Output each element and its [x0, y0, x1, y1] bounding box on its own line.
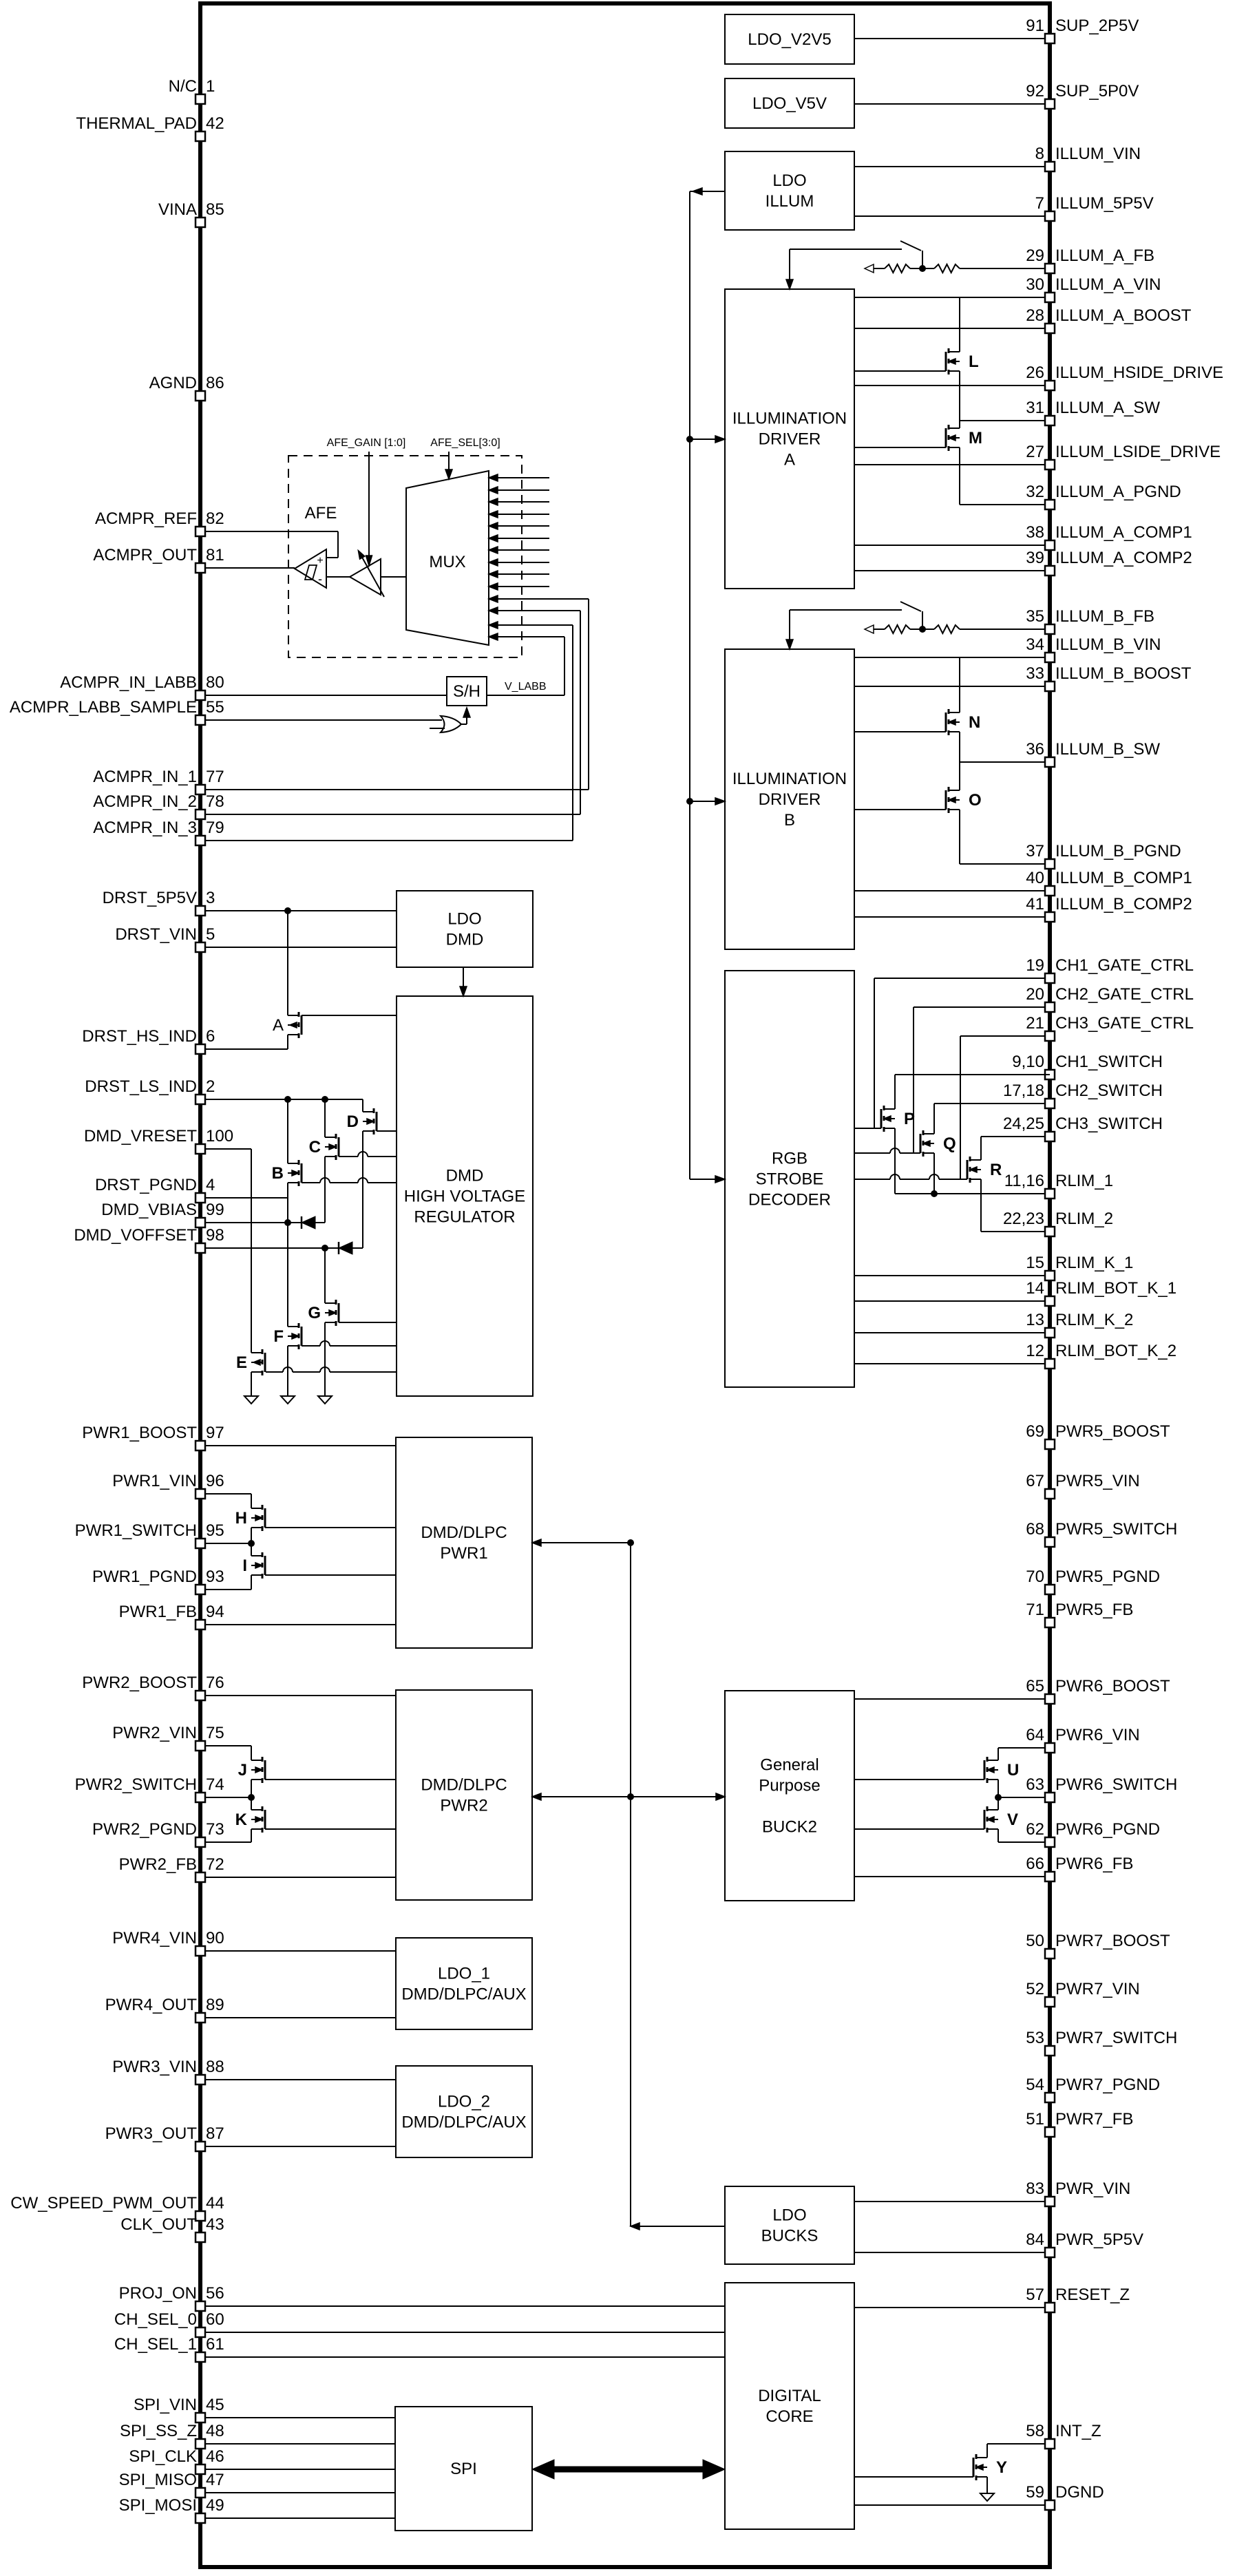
- wire I source to PWR1_PGND: [251, 1575, 252, 1590]
- wire B drain rail: [287, 1099, 288, 1163]
- svg-text:DMD_VOFFSET: DMD_VOFFSET: [74, 1226, 197, 1245]
- wire VBIAS diode anode: [315, 1222, 325, 1223]
- transistor G: [335, 1300, 337, 1305]
- svg-text:PWR6_SWITCH: PWR6_SWITCH: [1055, 1775, 1177, 1794]
- transistor F: [298, 1323, 300, 1328]
- node RLIM_BOT_K_1 (pin 14): [854, 1300, 1050, 1302]
- svg-text:90: 90: [206, 1929, 224, 1947]
- svg-text:ACMPR_IN_1: ACMPR_IN_1: [93, 768, 197, 786]
- svg-text:100: 100: [206, 1127, 233, 1146]
- svg-text:ACMPR_REF: ACMPR_REF: [95, 509, 197, 528]
- transistor D: [373, 1108, 375, 1113]
- junction DMD_VOFFSET: [321, 1245, 328, 1252]
- node PWR2_BOOST (pin 76): [200, 1695, 396, 1696]
- svg-text:PWR7_VIN: PWR7_VIN: [1055, 1980, 1140, 1998]
- wire MUX input 3: [489, 501, 549, 503]
- svg-text:ILLUM_B_SW: ILLUM_B_SW: [1055, 740, 1160, 759]
- svg-text:DMD: DMD: [446, 931, 484, 949]
- svg-text:PWR5_SWITCH: PWR5_SWITCH: [1055, 1520, 1177, 1539]
- svg-text:DRIVER: DRIVER: [759, 790, 821, 809]
- svg-text:49: 49: [206, 2496, 224, 2515]
- node CLK_OUT (pin 43): [196, 2232, 205, 2242]
- block LDO_V2V5: [725, 14, 854, 64]
- wire LDO ILLUM output bus: [689, 191, 690, 1179]
- svg-text:9,10: 9,10: [1012, 1053, 1044, 1071]
- node PWR3_VIN (pin 88): [200, 2079, 396, 2080]
- node PWR2_PGND (pin 73): [200, 1841, 251, 1843]
- switch ILLUM_B_FB: [922, 611, 923, 629]
- node SPI_SS_Z (pin 48): [200, 2443, 395, 2445]
- wire MUX input 8: [489, 562, 549, 563]
- svg-text:ILLUM_A_PGND: ILLUM_A_PGND: [1055, 483, 1181, 501]
- svg-text:Y: Y: [996, 2458, 1007, 2477]
- junction bus top: [627, 1539, 634, 1546]
- node ACMPR_IN_3 (pin 79): [200, 840, 573, 841]
- svg-text:15: 15: [1026, 1254, 1044, 1272]
- svg-text:55: 55: [206, 698, 224, 717]
- node CH3_GATE_CTRL (pin 21): [960, 1035, 1050, 1037]
- svg-text:PWR_VIN: PWR_VIN: [1055, 2179, 1130, 2198]
- node ILLUM_A_VIN (pin 30): [854, 297, 1050, 298]
- svg-text:ILLUMINATION: ILLUMINATION: [732, 770, 847, 788]
- svg-text:42: 42: [206, 114, 224, 133]
- svg-text:69: 69: [1026, 1422, 1044, 1441]
- svg-text:30: 30: [1026, 275, 1044, 294]
- diode: [301, 1216, 303, 1229]
- svg-text:PWR6_BOOST: PWR6_BOOST: [1055, 1677, 1170, 1696]
- svg-text:CH2_SWITCH: CH2_SWITCH: [1055, 1081, 1163, 1100]
- node PWR5_VIN (pin 67): [1045, 1489, 1055, 1499]
- svg-text:86: 86: [206, 374, 224, 392]
- svg-text:21: 21: [1026, 1014, 1044, 1033]
- svg-text:2: 2: [206, 1077, 215, 1096]
- wire bus to DMD/DLPC PWR1: [532, 1542, 631, 1543]
- outer chip boundary: [200, 3, 1050, 2567]
- svg-text:43: 43: [206, 2215, 224, 2234]
- node DMD_VBIAS (pin 99): [200, 1222, 302, 1223]
- wire comparator minus input: [326, 576, 350, 578]
- bus SPI to DIGITAL CORE (bidirectional): [544, 2467, 713, 2473]
- svg-text:ILLUM_HSIDE_DRIVE: ILLUM_HSIDE_DRIVE: [1055, 363, 1223, 382]
- transistor R: [969, 1157, 971, 1161]
- transistor J: [262, 1757, 264, 1762]
- ground: [318, 1396, 332, 1404]
- svg-text:91: 91: [1026, 17, 1044, 35]
- node ILLUM_LSIDE_DRIVE (pin 27): [854, 464, 1050, 465]
- switch ILLUM_A_FB: [922, 251, 923, 268]
- ground: [244, 1396, 258, 1404]
- node ILLUM_B_PGND (pin 37): [960, 863, 1050, 865]
- node SPI_CLK (pin 46): [200, 2469, 395, 2470]
- svg-text:17,18: 17,18: [1003, 1081, 1044, 1100]
- wire E source to ground: [251, 1372, 252, 1396]
- svg-text:89: 89: [206, 1996, 224, 2014]
- junction illum bus A: [686, 436, 693, 443]
- wire J source to PWR2_SWITCH to K drain: [251, 1780, 252, 1810]
- svg-text:ILLUM_A_BOOST: ILLUM_A_BOOST: [1055, 306, 1192, 325]
- svg-text:41: 41: [1026, 895, 1044, 914]
- svg-text:CORE: CORE: [766, 2407, 813, 2426]
- svg-text:ILLUM_A_COMP1: ILLUM_A_COMP1: [1055, 523, 1192, 542]
- wire N source to ILLUM_B_SW to O drain: [959, 732, 960, 790]
- resistor network ILLUM_A_FB: [865, 264, 874, 273]
- svg-text:PWR1_FB: PWR1_FB: [119, 1603, 197, 1621]
- wire H source to PWR1_SWITCH to I drain: [251, 1528, 252, 1556]
- svg-text:ILLUM_B_BOOST: ILLUM_B_BOOST: [1055, 664, 1192, 683]
- svg-text:ILLUM_A_SW: ILLUM_A_SW: [1055, 399, 1160, 417]
- wire MUX input 12 from ACMPR_IN_2: [489, 610, 580, 611]
- transistor B: [298, 1160, 300, 1165]
- node PWR1_PGND (pin 93): [200, 1589, 251, 1590]
- junction DMD_VBIAS: [284, 1219, 291, 1226]
- block LDO_V5V: [725, 78, 854, 128]
- svg-text:61: 61: [206, 2335, 224, 2354]
- svg-text:48: 48: [206, 2422, 224, 2440]
- node ILLUM_A_SW (pin 31): [960, 420, 1050, 421]
- node ILLUM_B_BOOST (pin 33): [854, 686, 1050, 687]
- transistor M: [948, 425, 950, 430]
- svg-text:SUP_2P5V: SUP_2P5V: [1055, 17, 1139, 35]
- svg-text:PWR2_FB: PWR2_FB: [119, 1855, 197, 1874]
- node PWR6_SWITCH (pin 63): [998, 1797, 1050, 1798]
- svg-text:SPI_SS_Z: SPI_SS_Z: [120, 2422, 197, 2440]
- svg-text:LDO_V5V: LDO_V5V: [752, 94, 827, 113]
- node ILLUM_B_FB (pin 35): [960, 629, 1050, 630]
- node PWR6_VIN (pin 64): [998, 1747, 1050, 1749]
- svg-text:PWR6_FB: PWR6_FB: [1055, 1855, 1133, 1873]
- svg-text:6: 6: [206, 1027, 215, 1046]
- ground: [281, 1396, 295, 1404]
- node PWR1_SWITCH (pin 95): [200, 1543, 251, 1544]
- svg-text:81: 81: [206, 546, 224, 564]
- svg-text:PWR7_SWITCH: PWR7_SWITCH: [1055, 2029, 1177, 2047]
- node DMD_VOFFSET (pin 98): [200, 1247, 339, 1249]
- node PWR5_SWITCH (pin 68): [1045, 1537, 1055, 1547]
- wire CH2_SWITCH to Q drain: [933, 1104, 935, 1134]
- svg-text:PWR1: PWR1: [440, 1544, 487, 1563]
- wire CH1_GATE_CTRL riser: [874, 978, 875, 1128]
- svg-text:92: 92: [1026, 82, 1044, 101]
- block General Purpose BUCK2: [725, 1691, 854, 1901]
- svg-text:11,16: 11,16: [1004, 1172, 1044, 1190]
- svg-text:72: 72: [206, 1855, 224, 1874]
- junction bus middle: [627, 1793, 634, 1800]
- svg-text:20: 20: [1026, 985, 1044, 1004]
- svg-text:66: 66: [1026, 1855, 1044, 1873]
- wire PWR2_VIN rail: [251, 1746, 252, 1760]
- wire K source to PWR2_PGND: [251, 1829, 252, 1842]
- svg-text:U: U: [1007, 1761, 1019, 1780]
- node ILLUM_A_PGND (pin 32): [960, 504, 1050, 505]
- transistor A: [298, 1012, 300, 1017]
- node PWR3_OUT (pin 87): [200, 2146, 396, 2147]
- node INT_Z (pin 58): [987, 2443, 1050, 2445]
- svg-text:LDO: LDO: [772, 2206, 806, 2225]
- node ACMPR_IN_2 (pin 78): [200, 814, 580, 815]
- wire MUX input 10: [489, 586, 549, 587]
- node PWR7_VIN (pin 52): [1045, 1997, 1055, 2007]
- svg-text:-: -: [318, 572, 322, 586]
- svg-text:PWR6_VIN: PWR6_VIN: [1055, 1726, 1140, 1744]
- svg-text:CH_SEL_1: CH_SEL_1: [114, 2335, 197, 2354]
- node RESET_Z (pin 57): [854, 2307, 1050, 2308]
- svg-text:Q: Q: [943, 1134, 956, 1153]
- svg-text:44: 44: [206, 2194, 224, 2213]
- svg-text:ILLUM_5P5V: ILLUM_5P5V: [1055, 194, 1154, 213]
- svg-text:82: 82: [206, 509, 224, 528]
- svg-text:ILLUM: ILLUM: [766, 192, 814, 211]
- node DMD_VRESET (pin 100): [200, 1148, 251, 1150]
- junction illum bus B: [686, 798, 693, 805]
- wire AFE_SEL control arrow: [448, 452, 450, 469]
- svg-text:INT_Z: INT_Z: [1055, 2422, 1101, 2440]
- svg-text:REGULATOR: REGULATOR: [414, 1208, 515, 1227]
- svg-text:PWR5_FB: PWR5_FB: [1055, 1601, 1133, 1619]
- svg-text:31: 31: [1026, 399, 1044, 417]
- node PWR1_BOOST (pin 97): [200, 1445, 396, 1446]
- wire R source to RLIM_2: [980, 1179, 982, 1232]
- svg-text:DGND: DGND: [1055, 2483, 1104, 2502]
- svg-text:32: 32: [1026, 483, 1044, 501]
- svg-text:79: 79: [206, 819, 224, 837]
- wire MUX input 7: [489, 549, 549, 551]
- svg-text:H: H: [235, 1509, 247, 1528]
- svg-text:95: 95: [206, 1521, 224, 1540]
- svg-text:98: 98: [206, 1226, 224, 1245]
- wire bus to BUCK2: [631, 1796, 725, 1797]
- junction on DRST_5P5V wire: [284, 907, 291, 914]
- node DRST_HS_IND (pin 6): [200, 1048, 288, 1050]
- node PWR4_VIN (pin 90): [200, 1950, 396, 1952]
- svg-text:LDO_1: LDO_1: [438, 1965, 490, 1983]
- node ILLUM_HSIDE_DRIVE (pin 26): [854, 385, 1050, 386]
- node CW_SPEED_PWM_OUT (pin 44): [196, 2211, 205, 2221]
- svg-text:73: 73: [206, 1820, 224, 1839]
- svg-text:87: 87: [206, 2124, 224, 2143]
- block RGB STROBE DECODER: [725, 971, 854, 1387]
- block DIGITAL CORE: [725, 2283, 854, 2529]
- wire C source down to VBIAS diode: [324, 1157, 326, 1223]
- wire B source to DRST_PGND and VBIAS: [287, 1183, 288, 1327]
- svg-text:S/H: S/H: [453, 682, 481, 701]
- block DMD/DLPC PWR2: [396, 1690, 532, 1900]
- node SPI_MISO (pin 47): [200, 2492, 395, 2493]
- wire MUX input 13 from ACMPR_IN_3: [489, 624, 573, 626]
- svg-text:ILLUM_A_VIN: ILLUM_A_VIN: [1055, 275, 1161, 294]
- block ILLUMINATION DRIVER B: [725, 649, 854, 949]
- svg-text:DMD_VRESET: DMD_VRESET: [84, 1127, 197, 1146]
- junction PWR6_SWITCH: [995, 1794, 1002, 1801]
- svg-text:RLIM_2: RLIM_2: [1055, 1210, 1113, 1228]
- svg-text:F: F: [273, 1327, 284, 1346]
- svg-text:54: 54: [1026, 2076, 1044, 2094]
- svg-text:DECODER: DECODER: [748, 1191, 831, 1210]
- svg-text:ACMPR_IN_2: ACMPR_IN_2: [93, 792, 197, 811]
- svg-text:DMD: DMD: [446, 1167, 484, 1185]
- node DRST_LS_IND (pin 2): [200, 1099, 363, 1100]
- svg-text:General: General: [760, 1756, 819, 1775]
- node PWR5_BOOST (pin 69): [1045, 1439, 1055, 1449]
- wire MUX input 1: [489, 477, 549, 478]
- wire illum bus to DRIVER B: [690, 801, 725, 802]
- svg-text:SPI_MISO: SPI_MISO: [119, 2471, 197, 2489]
- node SUP_2P5V (pin 91): [854, 38, 1050, 39]
- svg-text:38: 38: [1026, 523, 1044, 542]
- svg-text:PWR5_PGND: PWR5_PGND: [1055, 1567, 1160, 1586]
- node DGND (pin 59): [854, 2504, 1050, 2506]
- node ILLUM_VIN (pin 8): [854, 166, 1050, 167]
- block S/H sample and hold: [447, 677, 487, 706]
- node N/C (pin 1): [196, 94, 205, 104]
- svg-text:19: 19: [1026, 956, 1044, 975]
- node ILLUM_A_COMP2 (pin 39): [854, 570, 1050, 571]
- or-gate for LABB sample: [441, 716, 461, 732]
- node AGND (pin 86): [196, 391, 205, 401]
- svg-text:64: 64: [1026, 1726, 1044, 1744]
- svg-text:BUCKS: BUCKS: [761, 2227, 819, 2246]
- svg-text:ILLUM_B_COMP2: ILLUM_B_COMP2: [1055, 895, 1192, 914]
- svg-text:67: 67: [1026, 1472, 1044, 1490]
- transistor V: [986, 1806, 989, 1811]
- wire CH1_SWITCH to P drain: [894, 1075, 896, 1109]
- wire D source down to VOFFSET diode: [362, 1131, 363, 1248]
- transistor Y: [975, 2454, 978, 2459]
- svg-text:LDO_V2V5: LDO_V2V5: [748, 30, 831, 49]
- wire M source to ILLUM_A_PGND: [959, 447, 960, 505]
- svg-text:3: 3: [206, 889, 215, 907]
- svg-text:SUP_5P0V: SUP_5P0V: [1055, 82, 1139, 101]
- node PWR5_PGND (pin 70): [1045, 1585, 1055, 1594]
- node PWR5_FB (pin 71): [1045, 1618, 1055, 1627]
- svg-text:51: 51: [1026, 2110, 1044, 2129]
- svg-text:84: 84: [1026, 2230, 1044, 2249]
- svg-text:75: 75: [206, 1724, 224, 1742]
- node PWR2_SWITCH (pin 74): [200, 1797, 251, 1798]
- svg-text:B: B: [272, 1164, 284, 1183]
- svg-text:PWR5_BOOST: PWR5_BOOST: [1055, 1422, 1170, 1441]
- node CH2_SWITCH (pin 17,18): [934, 1103, 1050, 1104]
- svg-text:29: 29: [1026, 246, 1044, 265]
- node PWR7_FB (pin 51): [1045, 2127, 1055, 2137]
- node PWR_VIN (pin 83): [854, 2201, 1050, 2202]
- wire O source to ILLUM_B_PGND: [959, 810, 960, 864]
- op-amp comparator ACMPR: [295, 549, 326, 588]
- node CH_SEL_0 (pin 60): [200, 2332, 725, 2333]
- svg-text:PWR4_OUT: PWR4_OUT: [105, 1996, 198, 2014]
- svg-text:99: 99: [206, 1201, 224, 1219]
- transistor L: [948, 348, 950, 353]
- wire CH2_GATE_CTRL riser: [913, 1007, 914, 1153]
- svg-text:CH_SEL_0: CH_SEL_0: [114, 2310, 197, 2329]
- svg-text:ILLUM_B_COMP1: ILLUM_B_COMP1: [1055, 869, 1192, 887]
- svg-text:ACMPR_IN_LABB: ACMPR_IN_LABB: [60, 673, 197, 692]
- block LDO_2 DMD/DLPC/AUX: [396, 2066, 532, 2157]
- node SUP_5P0V (pin 92): [854, 103, 1050, 105]
- svg-text:THERMAL_PAD: THERMAL_PAD: [76, 114, 197, 133]
- svg-text:93: 93: [206, 1567, 224, 1586]
- wire CH3_GATE_CTRL riser: [960, 1036, 961, 1179]
- svg-text:27: 27: [1026, 443, 1044, 461]
- amplifier variable gain: [350, 559, 381, 595]
- svg-text:G: G: [308, 1304, 321, 1322]
- svg-text:AGND: AGND: [149, 374, 197, 392]
- wire or-gate output to S/H: [461, 724, 467, 725]
- wire or-gate second input: [430, 728, 445, 729]
- svg-text:DRST_VIN: DRST_VIN: [115, 925, 197, 944]
- svg-text:ILLUM_VIN: ILLUM_VIN: [1055, 145, 1141, 163]
- svg-text:A: A: [273, 1016, 284, 1035]
- svg-text:DRST_5P5V: DRST_5P5V: [103, 889, 197, 907]
- svg-text:78: 78: [206, 792, 224, 811]
- svg-text:C: C: [309, 1138, 321, 1157]
- svg-text:PWR1_PGND: PWR1_PGND: [92, 1567, 197, 1586]
- junction ILLUM_A_FB tap: [919, 265, 926, 272]
- svg-text:DMD/DLPC/AUX: DMD/DLPC/AUX: [401, 1985, 526, 2004]
- svg-text:CH1_GATE_CTRL: CH1_GATE_CTRL: [1055, 956, 1194, 975]
- ground: [980, 2493, 994, 2501]
- node PWR1_FB (pin 94): [200, 1624, 396, 1625]
- wire MUX input 2: [489, 489, 549, 491]
- svg-text:47: 47: [206, 2471, 224, 2489]
- node DRST_5P5V (pin 3): [200, 910, 397, 911]
- wire Q source to RLIM_1: [933, 1153, 935, 1194]
- wire F source to ground: [287, 1346, 288, 1396]
- svg-text:PWR2: PWR2: [440, 1797, 487, 1815]
- svg-text:BUCK2: BUCK2: [762, 1818, 817, 1837]
- svg-text:J: J: [238, 1761, 247, 1780]
- svg-text:PWR2_VIN: PWR2_VIN: [112, 1724, 197, 1742]
- junction PWR2_SWITCH: [248, 1794, 255, 1801]
- svg-text:CW_SPEED_PWM_OUT: CW_SPEED_PWM_OUT: [10, 2194, 197, 2213]
- svg-text:RGB: RGB: [772, 1150, 807, 1168]
- svg-text:RLIM_BOT_K_2: RLIM_BOT_K_2: [1055, 1342, 1176, 1360]
- svg-text:SPI_MOSI: SPI_MOSI: [119, 2496, 197, 2515]
- svg-text:PWR7_FB: PWR7_FB: [1055, 2110, 1133, 2129]
- wire AFE_GAIN control arrow: [368, 452, 370, 556]
- svg-text:AFE_SEL[3:0]: AFE_SEL[3:0]: [430, 437, 500, 449]
- svg-text:74: 74: [206, 1775, 224, 1794]
- svg-text:80: 80: [206, 673, 224, 692]
- svg-text:56: 56: [206, 2284, 224, 2303]
- diode: [338, 1242, 340, 1254]
- svg-text:ILLUM_LSIDE_DRIVE: ILLUM_LSIDE_DRIVE: [1055, 443, 1221, 461]
- node PWR7_SWITCH (pin 53): [1045, 2046, 1055, 2056]
- wire ILLUM DRIVER A feedback: [790, 249, 902, 250]
- junction RLIM_1: [931, 1190, 938, 1197]
- block DMD/DLPC PWR1: [396, 1437, 532, 1648]
- svg-text:DMD/DLPC/AUX: DMD/DLPC/AUX: [401, 2113, 526, 2132]
- wire MUX input 11 from ACMPR_IN_1: [489, 598, 589, 600]
- svg-text:ACMPR_OUT: ACMPR_OUT: [93, 546, 197, 564]
- junction DRST_LS_IND at C rail: [321, 1096, 328, 1103]
- transistor C: [335, 1134, 337, 1139]
- node ACMPR_IN_1 (pin 77): [200, 789, 589, 790]
- node RLIM_1 (pin 11,16): [895, 1193, 1050, 1194]
- svg-text:PWR2_SWITCH: PWR2_SWITCH: [75, 1775, 197, 1794]
- svg-text:DRIVER: DRIVER: [759, 430, 821, 449]
- svg-text:PROJ_ON: PROJ_ON: [119, 2284, 197, 2303]
- svg-text:ILLUM_A_FB: ILLUM_A_FB: [1055, 246, 1154, 265]
- node PWR6_PGND (pin 62): [998, 1841, 1050, 1843]
- node DRST_PGND (pin 4): [200, 1197, 288, 1199]
- svg-text:5: 5: [206, 925, 215, 944]
- wire L source to ILLUM_A_SW to M drain: [959, 371, 960, 428]
- svg-text:STROBE: STROBE: [756, 1170, 824, 1189]
- svg-text:22,23: 22,23: [1003, 1210, 1044, 1228]
- transistor O: [948, 787, 950, 792]
- node ILLUM_B_VIN (pin 34): [854, 657, 1050, 658]
- svg-text:M: M: [969, 429, 982, 447]
